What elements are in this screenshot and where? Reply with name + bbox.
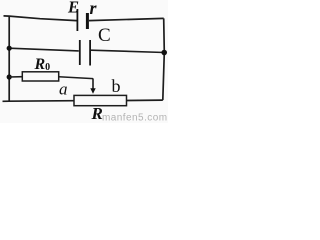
capacitor C plate right xyxy=(89,40,91,66)
svg-text:R: R xyxy=(91,104,103,123)
svg-text:r: r xyxy=(90,0,98,18)
svg-text:E: E xyxy=(67,0,79,17)
wire: top rail left segment xyxy=(4,16,77,21)
node: right junction xyxy=(161,50,167,56)
wire: capacitor rail left xyxy=(9,48,79,51)
wire: bottom rail right xyxy=(127,99,163,101)
battery E,r plate long xyxy=(76,9,78,31)
svg-text:manfen5.com: manfen5.com xyxy=(102,113,168,124)
svg-text:a: a xyxy=(59,80,68,99)
slider arrow of rheostat xyxy=(92,78,94,89)
svg-text:C: C xyxy=(98,25,111,46)
node: left junction upper xyxy=(7,46,12,51)
node: left junction lower xyxy=(7,74,12,79)
rheostat R box xyxy=(74,95,127,105)
svg-text:b: b xyxy=(112,76,121,96)
wire: capacitor rail right xyxy=(91,50,164,52)
wire: R0 rail to slider xyxy=(59,77,93,79)
wire: bottom rail left xyxy=(3,100,75,103)
wire: right vertical xyxy=(163,18,165,100)
wire: R0 rail stub left xyxy=(9,76,22,78)
battery plate short thick xyxy=(86,13,89,29)
resistor R0 box xyxy=(22,72,58,81)
capacitor C plate left xyxy=(79,40,81,65)
wire: left vertical xyxy=(8,16,10,101)
wire: top rail right segment xyxy=(89,18,164,20)
